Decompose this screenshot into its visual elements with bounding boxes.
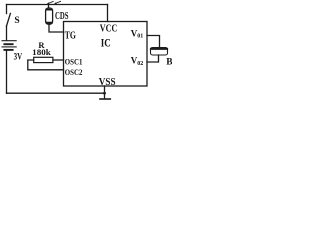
svg-text:180k: 180k <box>32 47 51 57</box>
svg-text:S: S <box>14 16 19 26</box>
wire Vo1 to B <box>147 36 160 48</box>
wire R left lead loop to OSC2 <box>28 60 64 70</box>
node VSS junction <box>103 92 106 95</box>
photoresistor CDS light arrows <box>48 1 54 3</box>
svg-text:OSC1: OSC1 <box>65 56 83 66</box>
wire CDS bottom lead to TG <box>49 24 64 32</box>
wire CDS top lead <box>48 5 50 9</box>
svg-text:IC: IC <box>101 35 111 49</box>
buzzer B body <box>151 48 168 55</box>
svg-text:B: B <box>166 58 172 68</box>
svg-text:OSC2: OSC2 <box>65 67 83 77</box>
wire VSS drop <box>104 86 106 93</box>
wire B to Vo2 <box>147 55 159 62</box>
svg-text:3V: 3V <box>14 52 23 62</box>
wire left border mid <box>6 26 8 40</box>
svg-text:CDS: CDS <box>55 11 69 22</box>
battery 3V plates <box>2 41 16 50</box>
svg-text:TG: TG <box>65 31 76 42</box>
wire bottom border <box>7 92 106 94</box>
switch S blade <box>7 13 11 26</box>
wire left border lower <box>6 51 8 94</box>
wire left border upper <box>6 5 8 14</box>
resistor R 180k body <box>34 57 53 62</box>
IC U1 body box <box>64 22 148 87</box>
wire R right lead to OSC1 <box>53 59 64 61</box>
ground <box>104 93 106 98</box>
svg-text:VSS: VSS <box>99 77 116 88</box>
wire VCC drop <box>107 5 109 22</box>
wire top border <box>7 4 108 6</box>
photoresistor CDS body <box>46 8 53 24</box>
svg-text:VCC: VCC <box>100 23 118 34</box>
